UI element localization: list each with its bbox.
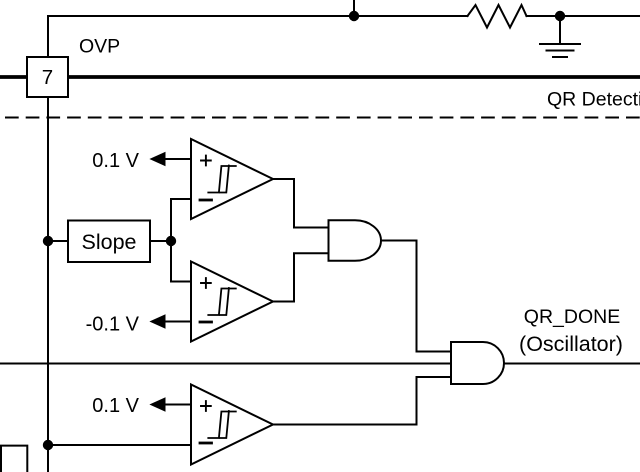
wire: U1 inverting input from slope node (171, 199, 191, 241)
svg-text:OVP: OVP (79, 36, 120, 58)
wire: middle rail into A2 (from left edge) (0, 363, 451, 365)
svg-text:-0.1 V: -0.1 V (86, 314, 140, 336)
svg-text:(Oscillator): (Oscillator) (519, 332, 623, 356)
node: junction at resistor right end (556, 12, 564, 20)
node: junction pin-7 net to U3 inverting input (44, 441, 52, 449)
net label QR_DONE (Oscillator) (519, 306, 623, 356)
wire: QR_DONE output (504, 363, 640, 365)
block: Slope (68, 221, 150, 263)
and-gate A1 (329, 220, 382, 261)
wire: pin-7 vertical net (47, 16, 49, 472)
wire: slope input (48, 240, 68, 242)
comparator U3 (191, 385, 273, 465)
ground (540, 16, 580, 57)
wire: U3 output to AND gate A2 bottom input (273, 377, 451, 425)
and-gate A2 (451, 342, 504, 384)
svg-text:QR_DONE: QR_DONE (524, 306, 620, 328)
comparator U1 (191, 139, 273, 219)
resistor R1 (468, 5, 527, 28)
svg-text:0.1 V: 0.1 V (92, 150, 139, 172)
svg-text:QR Detection: QR Detection (547, 89, 640, 111)
wire: U2 output to AND gate A1 bottom input (273, 253, 329, 301)
arrow into U2 - input (149, 314, 165, 329)
wire: top rail from pin-7 net corner to right edge (48, 15, 640, 17)
wire: U3 inverting input (48, 444, 191, 446)
arrow into U1 + input (149, 152, 165, 167)
pin 7 box (27, 57, 68, 97)
svg-text:0.1 V: 0.1 V (92, 395, 139, 417)
svg-text:7: 7 (42, 66, 53, 89)
svg-text:Slope: Slope (82, 230, 137, 254)
wire: U1 output to AND gate A1 top input (273, 179, 329, 228)
node: junction pin-7 net to Slope input (44, 237, 52, 245)
wire: main bus (thick) (0, 75, 640, 79)
node: junction of stub and top rail (350, 12, 358, 20)
comparator U2 (191, 262, 273, 342)
boundary: QR Detect section divider (dashed) (0, 117, 640, 119)
wire: vertical stub entering top rail from above (353, 0, 355, 16)
arrow into U3 + input (149, 397, 165, 412)
wire: A1 output to AND gate A2 top input (381, 241, 451, 352)
pin box (partial, bottom left) (1, 446, 27, 472)
wire: slope output (150, 240, 171, 242)
node: junction slope output to comparator inputs (167, 237, 175, 245)
wire: slope node to U2 non-inverting input (171, 241, 191, 282)
